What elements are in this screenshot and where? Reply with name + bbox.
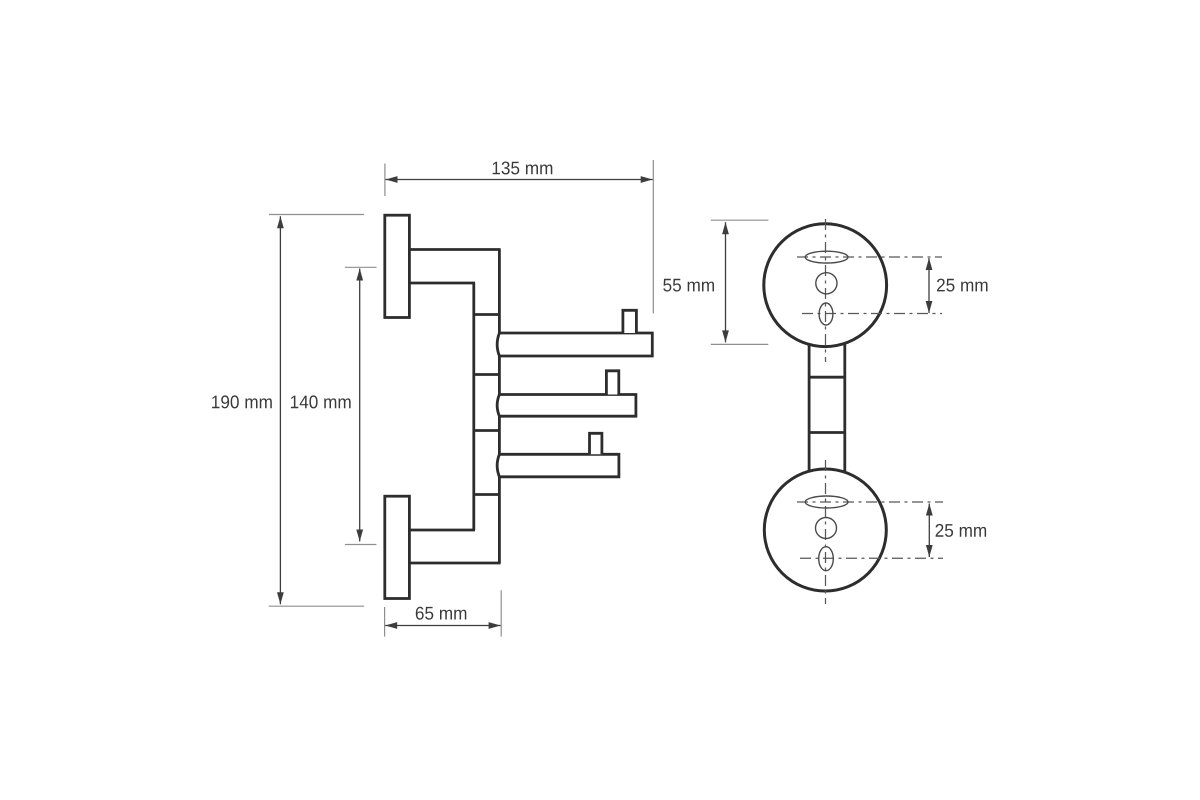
screw hole details: [805, 251, 848, 571]
swivel post left edge: [472, 283, 475, 530]
hook arm 3 tab: [590, 433, 602, 454]
top circle lower horizontal center line: [802, 313, 942, 315]
label 55 mm at x=662.6 baseline=291.4: [663, 279, 714, 292]
bottom circular wall plate: [764, 469, 886, 591]
140mm dimension line: [359, 269, 361, 542]
bottom mounting arm bottom edge: [408, 562, 501, 565]
55mm dimension line: [725, 222, 727, 342]
55mm bottom extension line: [711, 343, 769, 345]
55mm top extension line: [711, 219, 769, 221]
bottom mounting arm top edge: [408, 529, 475, 532]
hook arm 3 body: [497, 454, 619, 477]
top plate slot ellipse: [805, 251, 848, 263]
bottom circle lower horizontal center line: [800, 557, 943, 559]
center lines (dash-dot): [797, 219, 943, 604]
top circle upper horizontal center line: [797, 256, 942, 258]
135mm right witness line: [652, 160, 654, 314]
140mm bottom extension line: [345, 544, 377, 546]
top plate oval hole: [819, 303, 833, 325]
top circle vertical center line: [825, 219, 827, 362]
top mounting arm top edge: [408, 248, 501, 251]
label 190 mm at x=210.8 baseline=408.2: [212, 395, 272, 408]
connecting bar left edge: [808, 344, 811, 471]
135mm left witness line: [384, 164, 386, 197]
swivel post right edge: [498, 250, 501, 564]
label 25 mm at x=934.7 baseline=536.7: [936, 524, 987, 537]
hook arm 2 tab: [606, 371, 618, 395]
65mm dimension line: [385, 625, 500, 627]
top mounting arm bottom edge: [408, 282, 475, 285]
25mm top dimension line: [928, 258, 930, 313]
190mm dimension line: [279, 216, 281, 604]
connecting bar right edge: [843, 344, 846, 471]
bottom circle upper horizontal center line: [797, 501, 943, 503]
label 135 mm at x=491.3 baseline=174.3: [493, 162, 553, 175]
65mm right witness line: [500, 590, 502, 636]
label 25 mm at x=936.1 baseline=291.4: [937, 279, 988, 292]
190mm bottom extension line: [269, 605, 364, 607]
bottom plate screw circle: [816, 518, 837, 539]
65mm left witness line: [384, 607, 386, 637]
135mm dimension line: [386, 179, 653, 181]
top wall plate: [385, 215, 410, 317]
bottom plate oval hole: [819, 547, 834, 571]
hook arm 1 body: [497, 333, 652, 356]
top plate screw circle: [816, 273, 837, 294]
bottom wall plate: [385, 496, 410, 598]
label 65 mm at x=414.9 baseline=619.5: [416, 607, 467, 620]
top circular wall plate: [764, 224, 887, 347]
bar joint line lower: [809, 431, 845, 434]
25mm bottom dimension line: [928, 504, 930, 558]
190mm top extension line: [269, 214, 364, 216]
post joint line 2: [474, 373, 500, 376]
hook arm 2 body: [497, 395, 636, 417]
bottom circle vertical center line: [825, 460, 827, 604]
post joint line 4: [474, 493, 500, 496]
hook arm 1 tab: [623, 310, 637, 333]
bar joint line upper: [809, 376, 845, 379]
post joint line 3: [474, 429, 500, 432]
140mm top extension line: [345, 266, 377, 268]
bottom plate slot ellipse: [805, 496, 848, 508]
label 140 mm at x=289.6 baseline=408.2: [291, 395, 351, 408]
post joint line 1: [474, 313, 500, 316]
